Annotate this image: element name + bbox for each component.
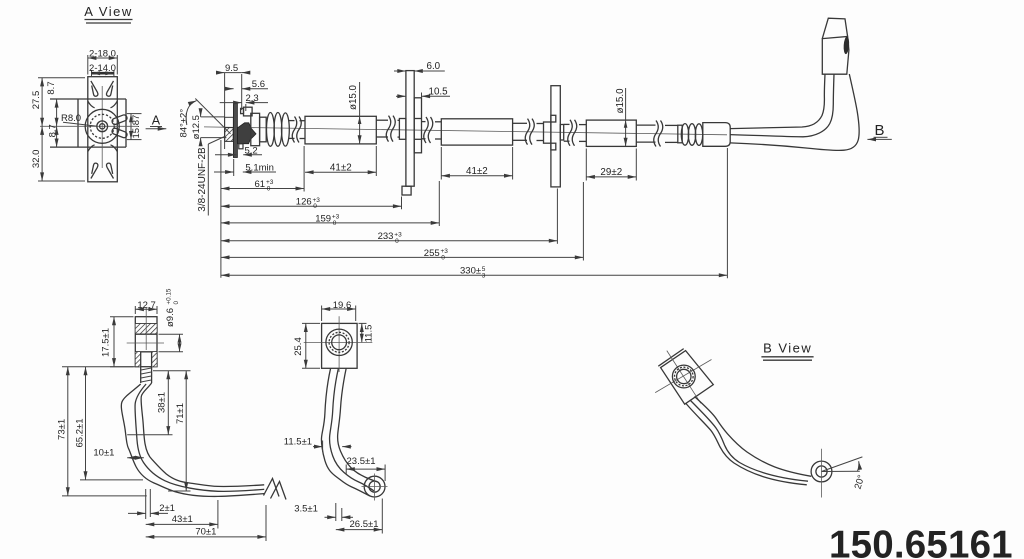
svg-text:8.7: 8.7 [46,81,57,94]
svg-text:0: 0 [333,220,337,227]
dim 19.6 [321,306,323,322]
svg-text:3: 3 [482,272,486,279]
svg-text:38±1: 38±1 [157,392,168,413]
svg-text:ø12.5: ø12.5 [191,115,202,139]
svg-text:25.4: 25.4 [293,337,304,356]
svg-text:10.5: 10.5 [429,87,449,98]
bracket 1 foot [402,186,411,195]
chain dim 255 [221,256,584,258]
dim 2-18.0 [87,55,89,75]
A-view centerlines [40,125,138,127]
bracket 2 left notches [551,115,556,122]
dim 12.7 [134,306,136,314]
dim 70+-1 [265,505,267,541]
boot left collar [251,113,260,145]
hose bracket1 to sleeve2 [422,121,426,123]
chain dim 126 [221,205,402,207]
dim 5.2 [215,154,237,156]
sleeve 2 [441,119,512,145]
svg-text:0: 0 [173,301,180,305]
bl threaded neck [140,367,142,383]
dim 8.7 lower [56,126,58,147]
bl centerlines [127,342,164,344]
sleeve 3 [586,120,636,146]
chain dim 61 [221,188,304,190]
bl bore walls hatched [136,352,141,367]
hose bracket2 to sleeve3 [564,123,570,125]
svg-text:17.5±1: 17.5±1 [101,328,112,357]
A-view bracket bar [88,77,118,182]
dim 2+-1 [145,489,147,519]
bracket 2 plate [551,86,560,187]
svg-text:ø15.0: ø15.0 [615,88,626,114]
connector block front face [822,37,849,75]
bl tube middle line [135,384,264,491]
left fitting nut top box [244,107,253,116]
A-view bottom slots [91,163,98,178]
bracket 1 plate [406,71,414,187]
svg-text:5.6: 5.6 [252,79,265,90]
dimension chain baseline ext [220,140,222,278]
A-view top slots [91,81,98,96]
svg-text:ø9.6: ø9.6 [165,308,176,327]
bv centerlines [655,360,711,393]
boot right ridges [681,124,688,146]
svg-text:10±1: 10±1 [93,447,114,458]
dim 8.7 upper [56,99,58,126]
left fitting lower tab [239,144,243,149]
svg-text:23.5±1: 23.5±1 [347,456,376,467]
svg-text:0: 0 [267,186,271,193]
bm tube left edge [321,368,369,496]
chain ext verticals [303,146,305,192]
svg-text:330±: 330± [460,266,481,277]
chain dim 233 [221,240,558,242]
bv 20deg angled line [822,457,863,472]
dim 10+-1 [127,457,144,459]
svg-text:71±1: 71±1 [175,403,186,424]
left fitting hex nut (dark) [238,123,256,144]
bv eyelet circles [672,365,695,388]
right end fitting [703,123,730,147]
svg-text:65.2±1: 65.2±1 [74,419,85,448]
svg-text:11.5±1: 11.5±1 [284,436,312,447]
svg-text:0: 0 [395,238,399,245]
dim 43+-1 [217,500,219,529]
dim 25.4 [302,322,320,324]
A-view horizontal arm [50,98,126,100]
dim 41+-2 sleeve2 [440,147,442,180]
svg-text:2-14.0: 2-14.0 [89,63,116,74]
break [292,117,297,143]
hose sleeve1 to bracket1 [376,119,388,121]
svg-text:70±1: 70±1 [195,527,216,538]
dim 29+-2 sleeve3 [585,149,587,181]
dim 84deg leader line [195,99,230,134]
svg-text:61: 61 [255,179,266,190]
svg-text:73±1: 73±1 [57,419,68,440]
dim 23.5+-1 [345,465,347,475]
bl tube inner (right) edge [141,383,264,486]
dim 32.0 [41,126,43,181]
svg-text:A: A [152,113,161,127]
svg-text:B: B [875,122,885,139]
bm tube middle line [330,368,374,491]
svg-text:8.7: 8.7 [48,124,59,137]
dim 38+-1 [153,370,191,372]
dim phi12.5 [201,116,225,118]
connector block top face [822,18,847,38]
left fitting thread stud (hatched) [225,117,234,137]
bm end eyelet [364,476,385,497]
bv end eyelet [811,461,832,482]
sleeve 1 [305,116,376,144]
dim phi15.0 sleeve1 [359,82,361,144]
svg-text:2-18.0: 2-18.0 [89,48,116,59]
svg-text:255: 255 [424,248,440,259]
dim 9.5 [241,74,243,110]
boot left ridges [267,112,275,146]
dim 10.5 bracket1 [421,93,423,98]
steel tube to block: inner edge [730,74,825,129]
bracket 1 wide mid section [414,98,421,153]
dim phi9.6 [159,333,184,335]
svg-text:9.5: 9.5 [225,63,238,74]
svg-text:+0.15: +0.15 [165,288,172,304]
bl tube end break [264,479,280,497]
svg-text:6.0: 6.0 [427,61,441,72]
svg-text:20°: 20° [853,473,868,490]
dim 71+-1 [168,490,191,492]
svg-text:233: 233 [378,231,394,242]
dim 11.5+-1 [322,441,324,453]
svg-text:0: 0 [441,255,445,262]
bm eyelet circles [326,329,352,355]
svg-text:84°±2°: 84°±2° [179,109,190,138]
hose sleeve3 to boot2 [636,124,655,126]
hose sleeve2 to bracket2 [513,122,527,124]
bv 20deg reference line [822,470,860,472]
svg-text:5.1min: 5.1min [245,163,274,174]
left fitting extension vertical [224,73,226,149]
left fitting flange plate [233,103,237,158]
hose segment boot to sleeve1 [289,120,295,122]
svg-text:43±1: 43±1 [172,514,193,525]
svg-text:11.5: 11.5 [363,325,374,343]
dim 5.6 [225,88,234,90]
dim 3.5+-1 [335,503,337,521]
svg-text:27.5: 27.5 [31,91,42,110]
bl fitting block [135,317,157,367]
dim 5.1min [233,159,235,176]
connector block dark slot [843,36,850,54]
svg-text:126: 126 [296,197,312,208]
dim 27.5 [41,78,43,127]
bracket 1 grommet left block [399,119,406,140]
dim 2-14.0 [91,70,93,76]
bm tube right edge [338,368,377,482]
svg-text:32.0: 32.0 [31,150,42,169]
dim 11.5 [359,322,367,324]
svg-text:A View: A View [84,4,133,19]
bl hatched band [136,324,157,334]
bv tube upper edge [695,397,812,477]
svg-text:ø15.0: ø15.0 [348,84,359,110]
chain dim 330 [221,274,728,276]
dim 26.5+-1 [381,499,383,534]
dim 17.5+-1 [110,316,134,318]
boot right collar [678,125,682,143]
svg-text:0: 0 [313,203,317,210]
svg-text:19.6: 19.6 [333,300,352,311]
hose centerline [204,127,727,135]
dim 65.2+-1 [80,479,143,481]
dim 41+-2 sleeve1 [375,146,377,176]
svg-text:3.5±1: 3.5±1 [294,503,318,514]
bl tube outer (left) edge [121,384,264,496]
svg-text:29±2: 29±2 [600,167,622,178]
steel tube outer edge [730,74,859,150]
svg-text:5.2: 5.2 [245,146,258,157]
bv tube lower edge [686,404,807,485]
svg-text:41±2: 41±2 [466,166,488,177]
dim 6.0 bracket1 [394,70,406,72]
bm centerlines [304,342,373,344]
dim 2.3 [245,104,247,111]
svg-text:B View: B View [763,341,812,356]
svg-text:2.3: 2.3 [246,93,259,104]
A-view center circles [85,109,119,143]
dim 15.87 [127,113,142,115]
svg-text:159: 159 [315,213,331,224]
svg-text:150.65161: 150.65161 [829,523,1013,559]
bv flange block [661,351,714,405]
bracket 2 right nub [560,125,563,141]
steel tube middle line [730,74,834,137]
svg-text:3/8-24UNF-2B: 3/8-24UNF-2B [197,147,208,212]
svg-text:26.5±1: 26.5±1 [350,519,379,530]
svg-text:12.7: 12.7 [137,300,156,311]
dim 73+-1 [62,366,134,368]
chain dim 159 [221,222,439,224]
bm flange block [322,323,358,368]
svg-text:15.87: 15.87 [131,115,142,139]
dim 27.5 / 32.0 ext lines [38,77,85,79]
svg-text:41±2: 41±2 [330,162,352,173]
bv 20deg arc [858,461,859,471]
A-view boss transition arcs [88,101,118,152]
bracket 2 grommet left block [544,122,551,143]
svg-text:2±1: 2±1 [159,503,175,514]
bv tube middle line [690,400,808,481]
dim phi15.0 sleeve3 [625,88,627,146]
A-view right tabs [111,114,128,138]
